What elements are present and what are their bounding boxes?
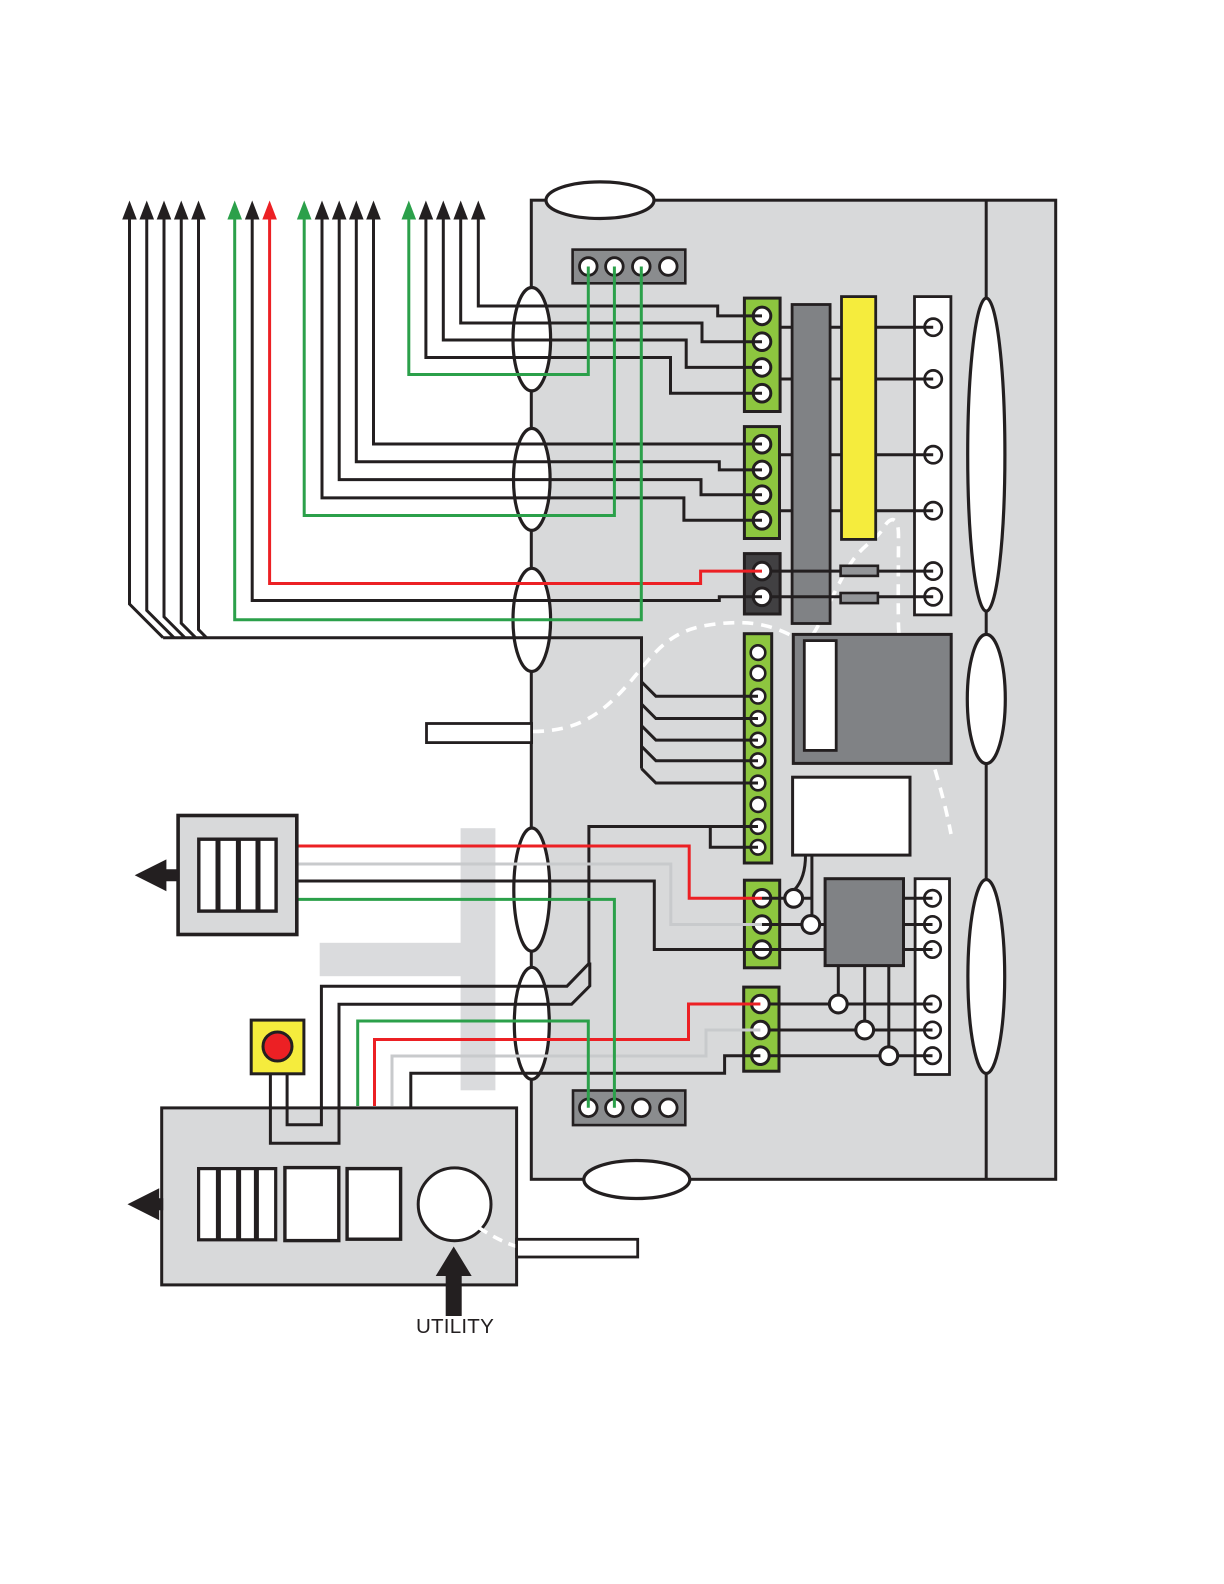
wire branch TB4 pin4 [642,704,759,718]
fuse row 2 wiring [771,595,933,598]
wire utility gray to TB6 pin2 [392,1030,760,1106]
white duct bar left [427,724,532,743]
terminal block TB6 green [744,987,779,1071]
controller U1 window [804,641,836,751]
wire K1 leg 1 [837,966,840,1004]
terminal block TB1 green [744,298,780,411]
arrowhead green group4 [402,201,417,220]
load center box [178,816,297,935]
wire branch TB4 pin5 [642,726,759,740]
panel enclosure [531,200,1055,1179]
fuse F2 [841,593,878,603]
breaker strip W1 white [915,297,951,615]
wire group4 black 4 to TB1 pin1 [478,216,762,316]
wire group1 black feeder 3 [164,216,185,638]
bus link TB1 row1 [780,326,933,329]
wire TB6 row2 to W2 [769,1029,932,1032]
wire group1 black feeder 5 [199,216,207,638]
wire bundle trunk to TB4 [163,638,641,769]
wire U2 to junction 1 curve [794,855,805,890]
breaker strip W2 white [915,879,949,1075]
wire TB5 row2 to K1 [762,923,825,926]
wire utility red to TB6 pin1 [375,1004,761,1106]
wire group2 black to TB3 pin2 [252,216,762,601]
bus link TB2 row2 [780,509,934,512]
wire estop loop 2 [270,1073,339,1143]
wire group1 black feeder 4 [181,216,195,638]
svg-text:UTILITY: UTILITY [416,1315,494,1338]
bushing R2 [967,634,1005,763]
wire group4 black 3 to TB1 pin2 [461,216,762,342]
wire branch TB4 pin3 [642,682,759,696]
arrowhead green group3 [297,201,312,220]
arrowheads black group4 [419,201,486,220]
wire group4 black 1 to TB1 pin4 [426,216,762,393]
bushing E4 [514,828,550,951]
utility rail bar [517,1239,638,1257]
bushing E1 [513,288,551,391]
fuse F1 [841,566,878,576]
wire group3 black 4 to TB2 pin1 [374,216,763,444]
junction node E [880,1047,898,1065]
wire group2 green to J1 pin3 [235,216,642,620]
wire group4 black 2 to TB1 pin3 [443,216,762,367]
wire TB6 row1 to W2 [769,1003,932,1006]
fuse row 1 wiring [771,570,933,573]
wire group1 black feeder 2 [147,216,174,638]
arrowhead red group2 [262,201,277,220]
bushing top [546,182,654,219]
wire utility black bottom to TB6 pin3 [411,1056,761,1108]
junction node B [802,916,820,934]
wire group2 red to TB3 pin1 [270,216,762,584]
wire load box black [297,881,762,950]
wire K1 to W2 row1 [904,897,933,900]
bus bar dark [792,305,830,624]
wire load box gray [297,864,762,925]
utility service box [162,1108,517,1285]
arrow utility out [128,1188,164,1220]
connector J1 top [573,250,686,284]
wire K1 to W2 row2 [904,923,933,926]
conduit shade vertical bar [461,828,496,1090]
bushing bottom [584,1161,690,1199]
estop button [251,1020,304,1074]
arrowhead green group2 [227,201,242,220]
terminal block TB5 green [744,880,779,968]
wire group3 green to J1 pin2 [304,216,614,516]
terminal strip TB4 green 10-pos [744,634,771,863]
terminal block TB2 green [744,427,779,539]
panel divider wall [985,200,988,1179]
wire group3 black 1 to TB2 pin4 [322,216,762,520]
wire branch TB4 pin6 [642,746,759,760]
dashed link utility meter [479,1228,518,1247]
wire TB5 row3 to K1 [762,948,825,951]
wire utility black B [339,963,590,1109]
arrow load out [135,859,179,891]
connector J2 bottom [573,1091,685,1126]
wire group1 black feeder 1 [130,216,164,638]
wire K1 to W2 row3 [904,948,933,951]
wire branch TB4 pin7 [642,769,759,783]
bus bar yellow [842,297,876,540]
bushing E5 [514,967,549,1079]
wire load box green to J2 pin2 [297,899,615,1107]
wire branch TB4 pin10 [710,827,758,848]
wire group3 black 2 to TB2 pin3 [339,216,762,495]
bushing R1 [968,298,1005,611]
bus link TB1 row2 [780,378,933,381]
wire estop loop 1 [287,1073,321,1125]
wire K1 leg 2 [863,966,866,1030]
bus link TB2 row1 [780,453,934,456]
wire utility green to J2 pin1 [358,1021,589,1108]
junction node C [829,995,847,1013]
bushing E3 [513,568,551,671]
junction node D [856,1021,874,1039]
wire TB5 row1 to junction [762,897,812,900]
arrowheads black group3 [315,201,381,220]
relay K1 dark square [825,879,903,966]
wire load box red [297,846,762,898]
junction node A [785,889,803,907]
wire K1 leg 3 [887,966,890,1056]
terminal block TB3 dark [744,554,780,614]
wire TB6 row3 to W2 [769,1054,932,1057]
conduit shade horizontal bar [320,943,462,976]
module U2 white box [793,777,910,855]
wire group3 black 3 to TB2 pin2 [356,216,762,470]
wire utility black A to TB4 pin9 [321,827,758,1109]
dashed signal path main [533,520,951,834]
wire group4 green to J1 pin1 [409,216,589,375]
bushing R3 [968,880,1005,1074]
wire U2 to junction 2 [810,855,813,924]
controller U1 dark box [793,634,951,763]
arrow utility in [436,1247,472,1317]
bushing E2 [514,428,551,530]
arrowhead black group2 [245,201,260,220]
arrowhead black group1 feeders [122,201,206,220]
